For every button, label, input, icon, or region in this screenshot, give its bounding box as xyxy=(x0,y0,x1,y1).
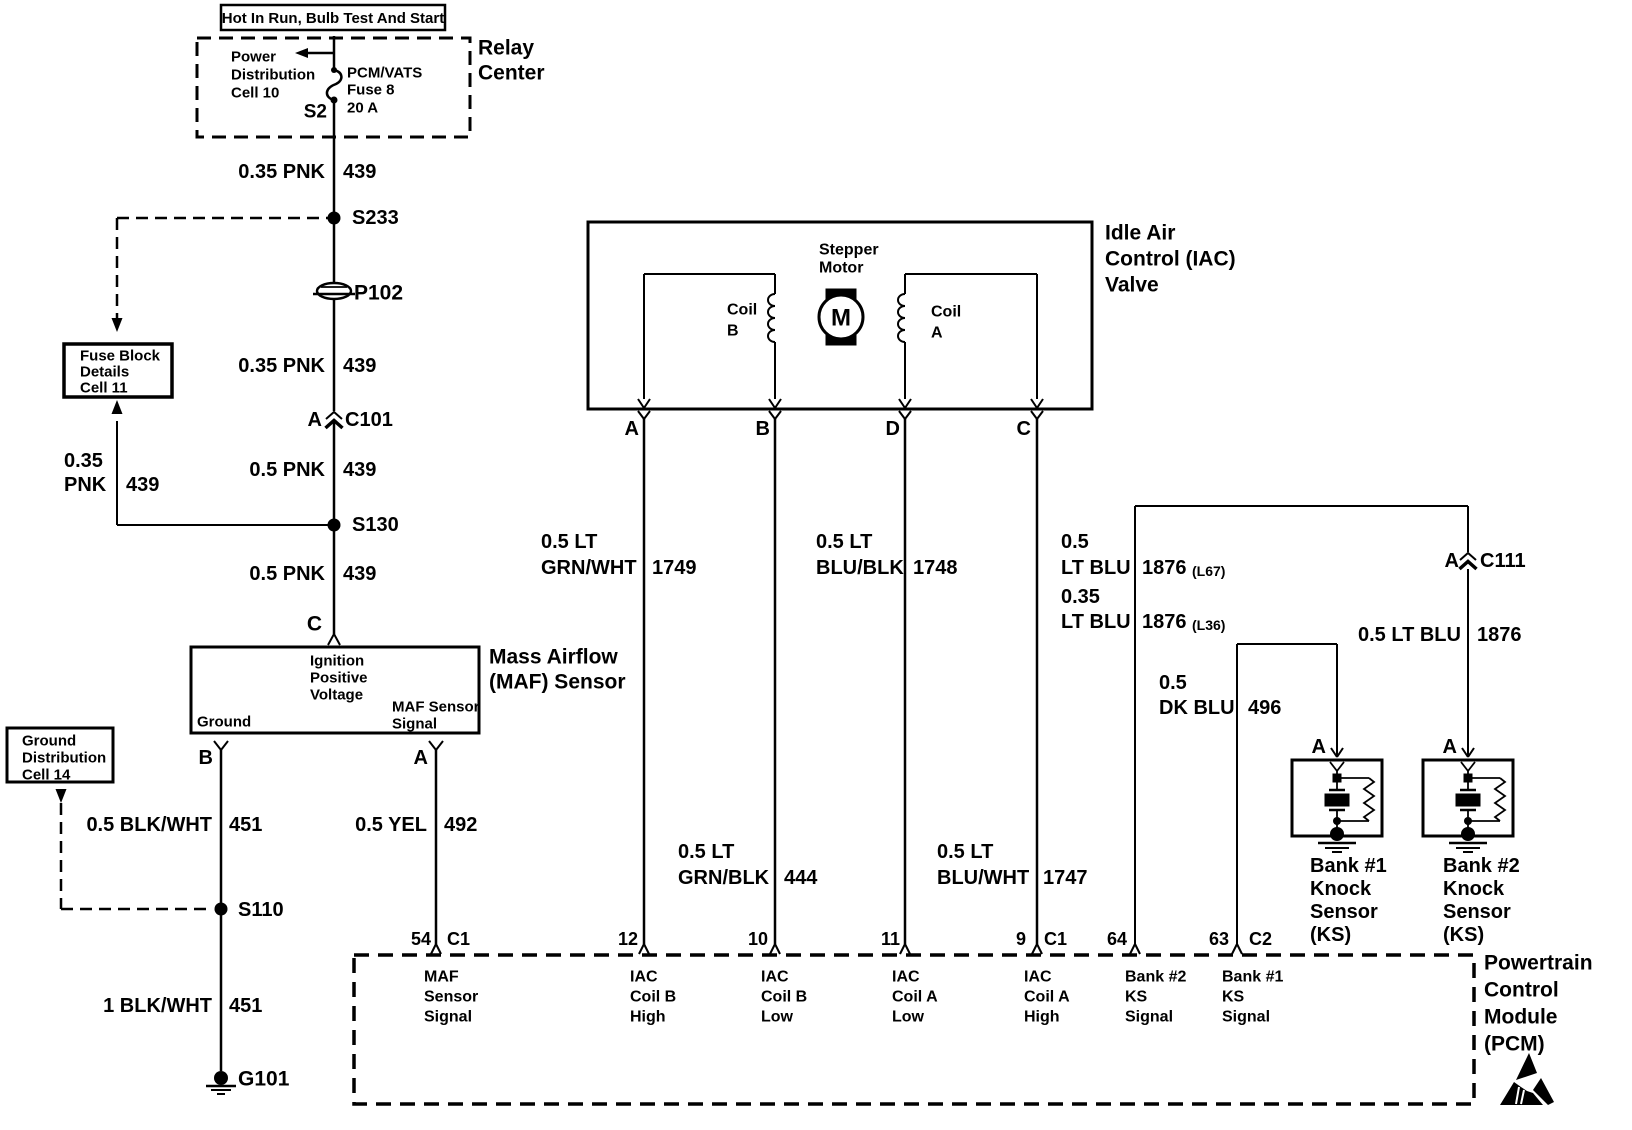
svg-text:Details: Details xyxy=(80,364,129,381)
svg-text:451: 451 xyxy=(229,814,262,836)
svg-text:BLU/BLK: BLU/BLK xyxy=(816,557,904,579)
svg-text:Bank #1: Bank #1 xyxy=(1222,969,1283,986)
svg-text:Cell 14: Cell 14 xyxy=(22,767,71,784)
svg-text:439: 439 xyxy=(126,474,159,496)
svg-text:Sensor: Sensor xyxy=(1310,901,1378,923)
svg-text:Bank #2: Bank #2 xyxy=(1443,855,1520,877)
svg-text:439: 439 xyxy=(343,459,376,481)
svg-text:Distribution: Distribution xyxy=(22,750,106,767)
svg-text:Knock: Knock xyxy=(1443,878,1505,900)
svg-text:0.5 LT BLU: 0.5 LT BLU xyxy=(1358,624,1461,646)
svg-text:A: A xyxy=(1312,736,1326,758)
svg-text:PCM/VATS: PCM/VATS xyxy=(347,65,422,82)
svg-text:Mass Airflow: Mass Airflow xyxy=(489,646,618,669)
svg-text:0.5 PNK: 0.5 PNK xyxy=(249,459,325,481)
svg-text:1749: 1749 xyxy=(652,557,697,579)
svg-text:B: B xyxy=(727,323,739,340)
svg-text:Signal: Signal xyxy=(1222,1009,1270,1026)
svg-text:Coil: Coil xyxy=(727,302,757,319)
svg-text:Module: Module xyxy=(1484,1006,1558,1029)
svg-text:C1: C1 xyxy=(447,929,470,949)
svg-text:1747: 1747 xyxy=(1043,867,1088,889)
svg-text:(KS): (KS) xyxy=(1310,924,1351,946)
svg-text:IAC: IAC xyxy=(630,969,658,986)
svg-text:Distribution: Distribution xyxy=(231,67,315,84)
svg-text:LT BLU: LT BLU xyxy=(1061,611,1131,633)
svg-text:0.5: 0.5 xyxy=(1061,531,1089,553)
svg-text:C111: C111 xyxy=(1480,550,1526,572)
svg-text:Motor: Motor xyxy=(819,260,863,277)
svg-text:S130: S130 xyxy=(352,514,399,536)
svg-text:Valve: Valve xyxy=(1105,274,1159,297)
svg-text:A: A xyxy=(414,747,428,769)
svg-text:IAC: IAC xyxy=(892,969,920,986)
svg-text:Control (IAC): Control (IAC) xyxy=(1105,248,1236,271)
svg-text:MAF: MAF xyxy=(424,969,459,986)
svg-text:Ground: Ground xyxy=(197,714,251,731)
svg-text:P102: P102 xyxy=(354,282,403,305)
svg-text:S2: S2 xyxy=(304,102,327,123)
svg-text:C: C xyxy=(307,613,322,636)
svg-text:9: 9 xyxy=(1016,929,1026,949)
svg-text:GRN/WHT: GRN/WHT xyxy=(541,557,637,579)
svg-text:492: 492 xyxy=(444,814,477,836)
svg-text:1748: 1748 xyxy=(913,557,958,579)
svg-text:Cell 10: Cell 10 xyxy=(231,85,279,102)
svg-text:A: A xyxy=(625,418,639,440)
svg-text:Ignition: Ignition xyxy=(310,653,364,670)
svg-text:0.5 YEL: 0.5 YEL xyxy=(355,814,427,836)
svg-text:1876: 1876 xyxy=(1142,557,1187,579)
svg-text:D: D xyxy=(886,418,900,440)
svg-text:439: 439 xyxy=(343,161,376,183)
svg-text:Relay: Relay xyxy=(478,37,534,60)
svg-text:Signal: Signal xyxy=(1125,1009,1173,1026)
svg-text:PNK: PNK xyxy=(64,474,107,496)
svg-text:IAC: IAC xyxy=(1024,969,1052,986)
svg-text:Coil B: Coil B xyxy=(630,989,676,1006)
svg-text:0.35 PNK: 0.35 PNK xyxy=(238,355,325,377)
svg-text:S233: S233 xyxy=(352,207,399,229)
svg-text:High: High xyxy=(630,1009,666,1026)
svg-text:Low: Low xyxy=(761,1009,794,1026)
svg-text:C2: C2 xyxy=(1249,929,1272,949)
svg-text:C: C xyxy=(1017,418,1031,440)
svg-text:A: A xyxy=(308,409,322,431)
svg-text:Positive: Positive xyxy=(310,670,368,687)
svg-text:20 A: 20 A xyxy=(347,100,378,117)
svg-text:A: A xyxy=(931,325,943,342)
svg-text:444: 444 xyxy=(784,867,818,889)
svg-text:Bank #1: Bank #1 xyxy=(1310,855,1387,877)
svg-text:S110: S110 xyxy=(238,899,284,921)
svg-text:KS: KS xyxy=(1125,989,1148,1006)
svg-text:0.5 BLK/WHT: 0.5 BLK/WHT xyxy=(86,814,212,836)
svg-text:Hot In Run, Bulb Test And Star: Hot In Run, Bulb Test And Start xyxy=(222,10,444,27)
svg-text:(KS): (KS) xyxy=(1443,924,1484,946)
svg-text:Sensor: Sensor xyxy=(1443,901,1511,923)
svg-text:12: 12 xyxy=(618,929,638,949)
svg-text:Sensor: Sensor xyxy=(424,989,478,1006)
svg-text:439: 439 xyxy=(343,355,376,377)
svg-text:0.5 LT: 0.5 LT xyxy=(541,531,597,553)
svg-text:High: High xyxy=(1024,1009,1060,1026)
svg-text:(PCM): (PCM) xyxy=(1484,1033,1545,1056)
svg-text:0.5: 0.5 xyxy=(1159,672,1187,694)
svg-text:Fuse 8: Fuse 8 xyxy=(347,82,395,99)
svg-text:1876: 1876 xyxy=(1142,611,1187,633)
svg-text:Low: Low xyxy=(892,1009,925,1026)
svg-text:Ground: Ground xyxy=(22,733,76,750)
svg-text:451: 451 xyxy=(229,995,262,1017)
svg-text:(MAF) Sensor: (MAF) Sensor xyxy=(489,671,626,694)
svg-text:1876: 1876 xyxy=(1477,624,1522,646)
svg-text:11: 11 xyxy=(881,929,900,949)
svg-text:B: B xyxy=(199,747,213,769)
svg-text:Bank #2: Bank #2 xyxy=(1125,969,1186,986)
svg-text:DK BLU: DK BLU xyxy=(1159,697,1235,719)
svg-text:0.35: 0.35 xyxy=(64,450,103,472)
svg-text:IAC: IAC xyxy=(761,969,789,986)
svg-text:1 BLK/WHT: 1 BLK/WHT xyxy=(103,995,212,1017)
svg-text:GRN/BLK: GRN/BLK xyxy=(678,867,770,889)
svg-text:Cell 11: Cell 11 xyxy=(80,380,128,397)
svg-text:Center: Center xyxy=(478,62,545,85)
svg-text:KS: KS xyxy=(1222,989,1245,1006)
svg-text:496: 496 xyxy=(1248,697,1281,719)
svg-text:Signal: Signal xyxy=(392,716,437,733)
svg-text:Idle Air: Idle Air xyxy=(1105,222,1175,245)
svg-text:0.5 LT: 0.5 LT xyxy=(678,841,734,863)
svg-text:B: B xyxy=(756,418,770,440)
svg-text:Voltage: Voltage xyxy=(310,687,363,704)
svg-text:64: 64 xyxy=(1107,929,1127,949)
svg-text:0.5 LT: 0.5 LT xyxy=(937,841,993,863)
svg-text:439: 439 xyxy=(343,563,376,585)
svg-text:Control: Control xyxy=(1484,979,1559,1002)
svg-text:10: 10 xyxy=(748,929,768,949)
svg-text:(L36): (L36) xyxy=(1192,617,1225,633)
svg-text:Fuse Block: Fuse Block xyxy=(80,348,161,365)
svg-text:Coil A: Coil A xyxy=(1024,989,1070,1006)
svg-text:C101: C101 xyxy=(345,409,393,431)
svg-text:MAF Sensor: MAF Sensor xyxy=(392,699,480,716)
svg-text:Coil A: Coil A xyxy=(892,989,938,1006)
svg-text:G101: G101 xyxy=(238,1068,290,1091)
svg-text:M: M xyxy=(831,305,851,332)
svg-text:0.35: 0.35 xyxy=(1061,586,1100,608)
svg-text:Coil B: Coil B xyxy=(761,989,807,1006)
svg-text:Stepper: Stepper xyxy=(819,242,879,259)
svg-text:Signal: Signal xyxy=(424,1009,472,1026)
svg-text:Knock: Knock xyxy=(1310,878,1372,900)
svg-text:Powertrain: Powertrain xyxy=(1484,952,1593,975)
svg-text:C1: C1 xyxy=(1044,929,1067,949)
svg-text:0.5 LT: 0.5 LT xyxy=(816,531,872,553)
svg-text:(L67): (L67) xyxy=(1192,563,1225,579)
svg-text:54: 54 xyxy=(411,929,431,949)
svg-text:Coil: Coil xyxy=(931,304,961,321)
svg-text:A: A xyxy=(1443,736,1457,758)
svg-text:A: A xyxy=(1445,550,1459,572)
svg-text:BLU/WHT: BLU/WHT xyxy=(937,867,1029,889)
svg-text:63: 63 xyxy=(1209,929,1229,949)
svg-text:Power: Power xyxy=(231,49,276,66)
svg-text:LT BLU: LT BLU xyxy=(1061,557,1131,579)
svg-text:0.5 PNK: 0.5 PNK xyxy=(249,563,325,585)
svg-text:0.35 PNK: 0.35 PNK xyxy=(238,161,325,183)
